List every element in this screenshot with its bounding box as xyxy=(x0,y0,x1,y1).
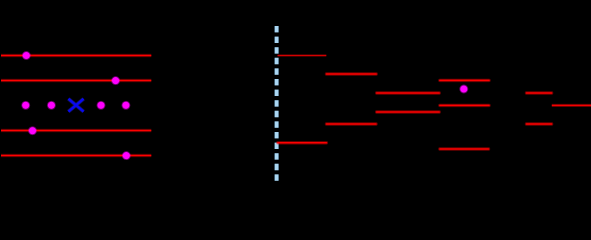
node: magenta dot on line 1 xyxy=(22,51,31,60)
node: magenta dot right panel xyxy=(459,85,468,94)
wire: gen4 bottom branch xyxy=(440,147,489,150)
node: magenta dot on line 2 xyxy=(111,76,120,85)
node: ellipsis dot d xyxy=(121,101,130,110)
wire: gen1 upper branch (thin) xyxy=(278,54,327,56)
wire: gen3 upper branch xyxy=(377,91,440,94)
wire: gen5 lower branch xyxy=(527,122,552,125)
axis: dashed vertical line xyxy=(274,26,279,181)
marker: blue X xyxy=(68,99,83,112)
wire: gen2 upper branch xyxy=(327,72,377,75)
node: ellipsis dot b xyxy=(47,101,56,110)
wire: gen1 lower branch xyxy=(278,141,327,144)
wire: left interval line 5 xyxy=(1,154,151,157)
node: magenta dot on line 4 xyxy=(28,126,37,135)
wire: gen4 middle branch xyxy=(440,104,489,107)
wire: left interval line 1 xyxy=(1,54,151,57)
wire: gen2 lower branch xyxy=(327,122,377,125)
wire: gen5 upper branch xyxy=(527,91,552,94)
wire: gen4 upper branch xyxy=(440,79,489,82)
node: ellipsis dot c xyxy=(97,101,106,110)
wire: left interval line 4 xyxy=(1,129,151,132)
wire: left interval line 2 xyxy=(1,79,151,82)
node: ellipsis dot a xyxy=(21,101,30,110)
wire: gen6 branch to edge xyxy=(552,104,591,107)
wire: gen3 lower branch xyxy=(377,110,440,113)
node: magenta dot on line 5 xyxy=(122,151,131,160)
